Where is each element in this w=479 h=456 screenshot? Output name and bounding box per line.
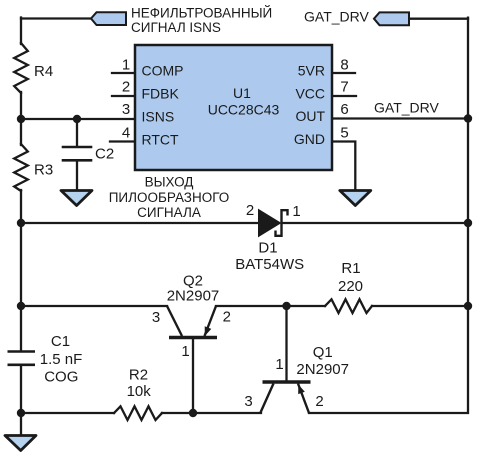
wire Q1 base vertical: [285, 306, 287, 381]
svg-text:5: 5: [340, 125, 348, 142]
ground under C2: [61, 191, 92, 206]
svg-text:Q1: Q1: [313, 344, 333, 361]
node sawtooth left rail: [17, 219, 25, 227]
node mid left rail: [17, 302, 25, 310]
flag НЕФИЛЬТРОВАННЫЙ СИГНАЛ ISNS: [91, 12, 126, 25]
flag GAT_DRV: [374, 12, 409, 25]
ground bottom left: [5, 436, 36, 451]
svg-text:2N2907: 2N2907: [167, 288, 220, 305]
wire sawtooth output: [21, 222, 258, 224]
svg-text:ПИЛООБРАЗНОГО: ПИЛООБРАЗНОГО: [109, 190, 230, 205]
svg-text:D1: D1: [258, 240, 277, 257]
node bus R1: [464, 302, 472, 310]
svg-text:1: 1: [275, 356, 283, 373]
svg-text:U1: U1: [233, 85, 251, 101]
svg-text:3: 3: [122, 101, 130, 118]
pin 2 stub: [112, 95, 135, 97]
svg-text:FDBK: FDBK: [142, 86, 180, 102]
wire left rail top: [20, 18, 22, 45]
wire right flag to bus corner: [409, 18, 468, 20]
svg-text:COMP: COMP: [142, 63, 184, 79]
pin 5 stub: [332, 142, 355, 192]
resistor R2: [114, 406, 162, 420]
svg-text:3: 3: [152, 309, 160, 326]
svg-text:5VR: 5VR: [298, 63, 325, 79]
svg-text:2: 2: [223, 309, 231, 326]
svg-text:GAT_DRV: GAT_DRV: [374, 100, 439, 116]
wire bottom left to R2: [21, 412, 114, 414]
svg-text:7: 7: [340, 79, 348, 96]
pin 8 stub: [332, 72, 355, 74]
resistor R3: [14, 144, 28, 191]
wire C2 bottom lead: [76, 161, 78, 191]
transistor Q1: [261, 382, 311, 413]
wire C2 top lead: [76, 119, 78, 146]
wire R1 to right bus: [372, 305, 468, 307]
node ISNS left rail: [17, 115, 25, 123]
wire mid rail to Q2 collector: [21, 305, 167, 307]
svg-text:3: 3: [244, 393, 252, 410]
capacitor C1: [8, 352, 36, 365]
transistor Q2: [167, 306, 217, 338]
pin 7 stub: [332, 95, 356, 97]
svg-text:4: 4: [122, 125, 130, 142]
node bus diode: [464, 219, 472, 227]
wire OUT pin 6 to right bus: [332, 117, 468, 119]
node bus OUT: [464, 114, 472, 122]
resistor R4: [14, 43, 28, 93]
svg-text:R4: R4: [34, 63, 53, 80]
svg-text:8: 8: [340, 57, 348, 74]
pin 1 stub: [112, 72, 135, 74]
svg-text:10k: 10k: [127, 383, 152, 400]
svg-text:COG: COG: [44, 368, 78, 385]
resistor R1: [325, 299, 372, 313]
svg-text:C1: C1: [51, 333, 70, 350]
wire right bus vertical: [309, 18, 468, 413]
wire left rail between R4 and R3: [20, 92, 22, 145]
svg-text:2N2907: 2N2907: [296, 361, 349, 378]
wire R2 to Q1 collector: [162, 412, 261, 414]
svg-text:2: 2: [122, 79, 130, 96]
ground under GND pin 5: [340, 191, 371, 206]
svg-text:RTCT: RTCT: [142, 132, 180, 148]
wire Q2 base vertical pin 1: [192, 339, 194, 413]
svg-text:R2: R2: [129, 367, 148, 384]
node C2 tap: [73, 115, 81, 123]
svg-text:220: 220: [338, 278, 363, 295]
svg-text:СИГНАЛ ISNS: СИГНАЛ ISNS: [131, 20, 221, 35]
svg-text:6: 6: [340, 101, 348, 118]
wire left rail C1 to ground: [20, 365, 22, 436]
pin 4 stub: [110, 140, 135, 142]
svg-text:C2: C2: [95, 145, 114, 162]
node Q1 base top: [282, 302, 290, 310]
wire diode cathode to bus: [283, 222, 468, 224]
svg-text:BAT54WS: BAT54WS: [235, 256, 304, 273]
svg-text:ВЫХОД: ВЫХОД: [145, 175, 194, 190]
capacitor C2: [63, 147, 91, 160]
wire top-left horizontal to flag: [21, 17, 92, 19]
wire left rail R3 to C1: [20, 190, 22, 351]
IC U1 UCC28C43 body: [135, 45, 332, 170]
node bottom left rail: [17, 409, 25, 417]
wire ISNS node to pin 3: [21, 118, 135, 120]
svg-text:1: 1: [122, 57, 130, 74]
svg-text:ISNS: ISNS: [142, 109, 175, 125]
svg-text:2: 2: [315, 393, 323, 410]
svg-text:R1: R1: [341, 260, 360, 277]
node Q2 base bottom: [189, 409, 197, 417]
svg-text:GAT_DRV: GAT_DRV: [304, 9, 369, 25]
svg-text:1.5 nF: 1.5 nF: [40, 351, 83, 368]
svg-text:UCC28C43: UCC28C43: [208, 102, 280, 118]
svg-text:1: 1: [181, 343, 189, 360]
wire Q2 emitter to Q1 base node: [216, 305, 287, 307]
wire Q1 base node to R1: [287, 305, 326, 307]
svg-text:R3: R3: [34, 162, 53, 179]
svg-text:1: 1: [292, 203, 300, 220]
svg-text:СИГНАЛА: СИГНАЛА: [137, 205, 201, 220]
svg-text:НЕФИЛЬТРОВАННЫЙ: НЕФИЛЬТРОВАННЫЙ: [131, 6, 272, 21]
svg-text:VCC: VCC: [295, 86, 325, 102]
svg-text:GND: GND: [294, 131, 325, 147]
diode D1 BAT54WS: [258, 209, 288, 238]
svg-text:OUT: OUT: [295, 108, 325, 124]
svg-text:2: 2: [246, 202, 254, 219]
